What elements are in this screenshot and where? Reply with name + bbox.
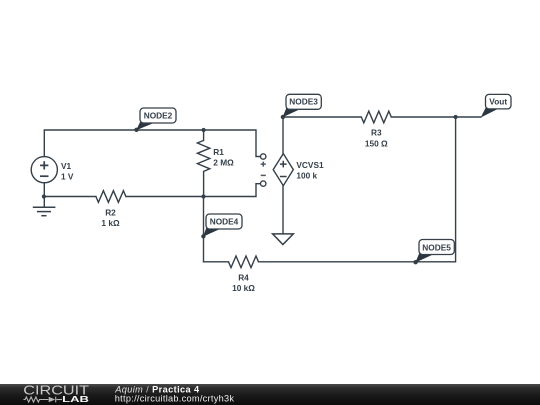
ground (earth style) under V1: [33, 207, 56, 216]
svg-text:LAB: LAB: [62, 394, 89, 404]
wire NODE3 column to VCVS: [282, 117, 284, 154]
node anchor NODE2: [134, 128, 138, 132]
ground (triangle style) under VCVS1: [273, 234, 294, 245]
node anchor NODE4: [201, 234, 205, 238]
wire V1 bottom lead: [43, 183, 45, 207]
node tag Vout: [481, 94, 511, 117]
svg-text:1 V: 1 V: [61, 172, 74, 182]
resistor R4: [229, 256, 259, 268]
svg-text:http://circuitlab.com/crtyh3k: http://circuitlab.com/crtyh3k: [115, 394, 235, 404]
VCVS1 input terminal +: [261, 154, 266, 159]
svg-text:Vout: Vout: [489, 96, 507, 106]
svg-text:NODE5: NODE5: [422, 243, 451, 253]
wire bottom R4 row to NODE5 corner and up: [204, 117, 456, 262]
resistor R1: [197, 140, 209, 171]
svg-text:NODE4: NODE4: [210, 216, 239, 226]
junction node NODE3 / VCVS top: [281, 115, 285, 119]
svg-text:R3: R3: [371, 128, 382, 138]
svg-text:NODE2: NODE2: [144, 110, 173, 120]
svg-text:NODE3: NODE3: [289, 97, 318, 107]
wire VCVS minus input lead: [204, 184, 261, 197]
svg-text:V1: V1: [61, 161, 72, 171]
wire NODE4 column: [203, 197, 205, 262]
svg-text:R4: R4: [238, 272, 249, 282]
junction V1 minus / ground: [42, 194, 46, 198]
node tag NODE3: [283, 94, 322, 117]
dependent source VCVS1 diamond: [273, 154, 293, 186]
svg-text:R2: R2: [105, 207, 116, 217]
footer bar: [0, 384, 540, 405]
svg-text:1 kΩ: 1 kΩ: [101, 218, 120, 228]
svg-text:10 kΩ: 10 kΩ: [232, 283, 255, 293]
node tag NODE5: [415, 240, 454, 263]
node tag NODE4: [203, 214, 242, 237]
wire VCVS bottom to ground: [282, 186, 284, 234]
junction R1 top on NODE2 net: [202, 128, 206, 132]
wire top net NODE2: [44, 130, 260, 157]
wire R1 leads: [203, 130, 205, 197]
logo resistor-diode glyph: [24, 397, 63, 403]
voltage source V1: [31, 157, 57, 183]
svg-text:2 MΩ: 2 MΩ: [213, 158, 234, 168]
VCVS1 input terminal -: [261, 174, 266, 176]
wire bottom-left net R2 row: [44, 196, 204, 198]
resistor R2: [96, 191, 126, 203]
junction Vout column top: [454, 115, 458, 119]
svg-text:VCVS1: VCVS1: [296, 160, 324, 170]
junction R1 bottom / R2 / NODE4 column: [201, 194, 205, 198]
svg-text:150 Ω: 150 Ω: [365, 138, 388, 148]
node anchor NODE5: [413, 260, 417, 264]
svg-text:100 k: 100 k: [296, 171, 317, 181]
wire NODE3 row: [283, 116, 481, 118]
node tag NODE2: [136, 108, 176, 130]
resistor R3: [361, 111, 391, 123]
svg-text:R1: R1: [213, 147, 224, 157]
